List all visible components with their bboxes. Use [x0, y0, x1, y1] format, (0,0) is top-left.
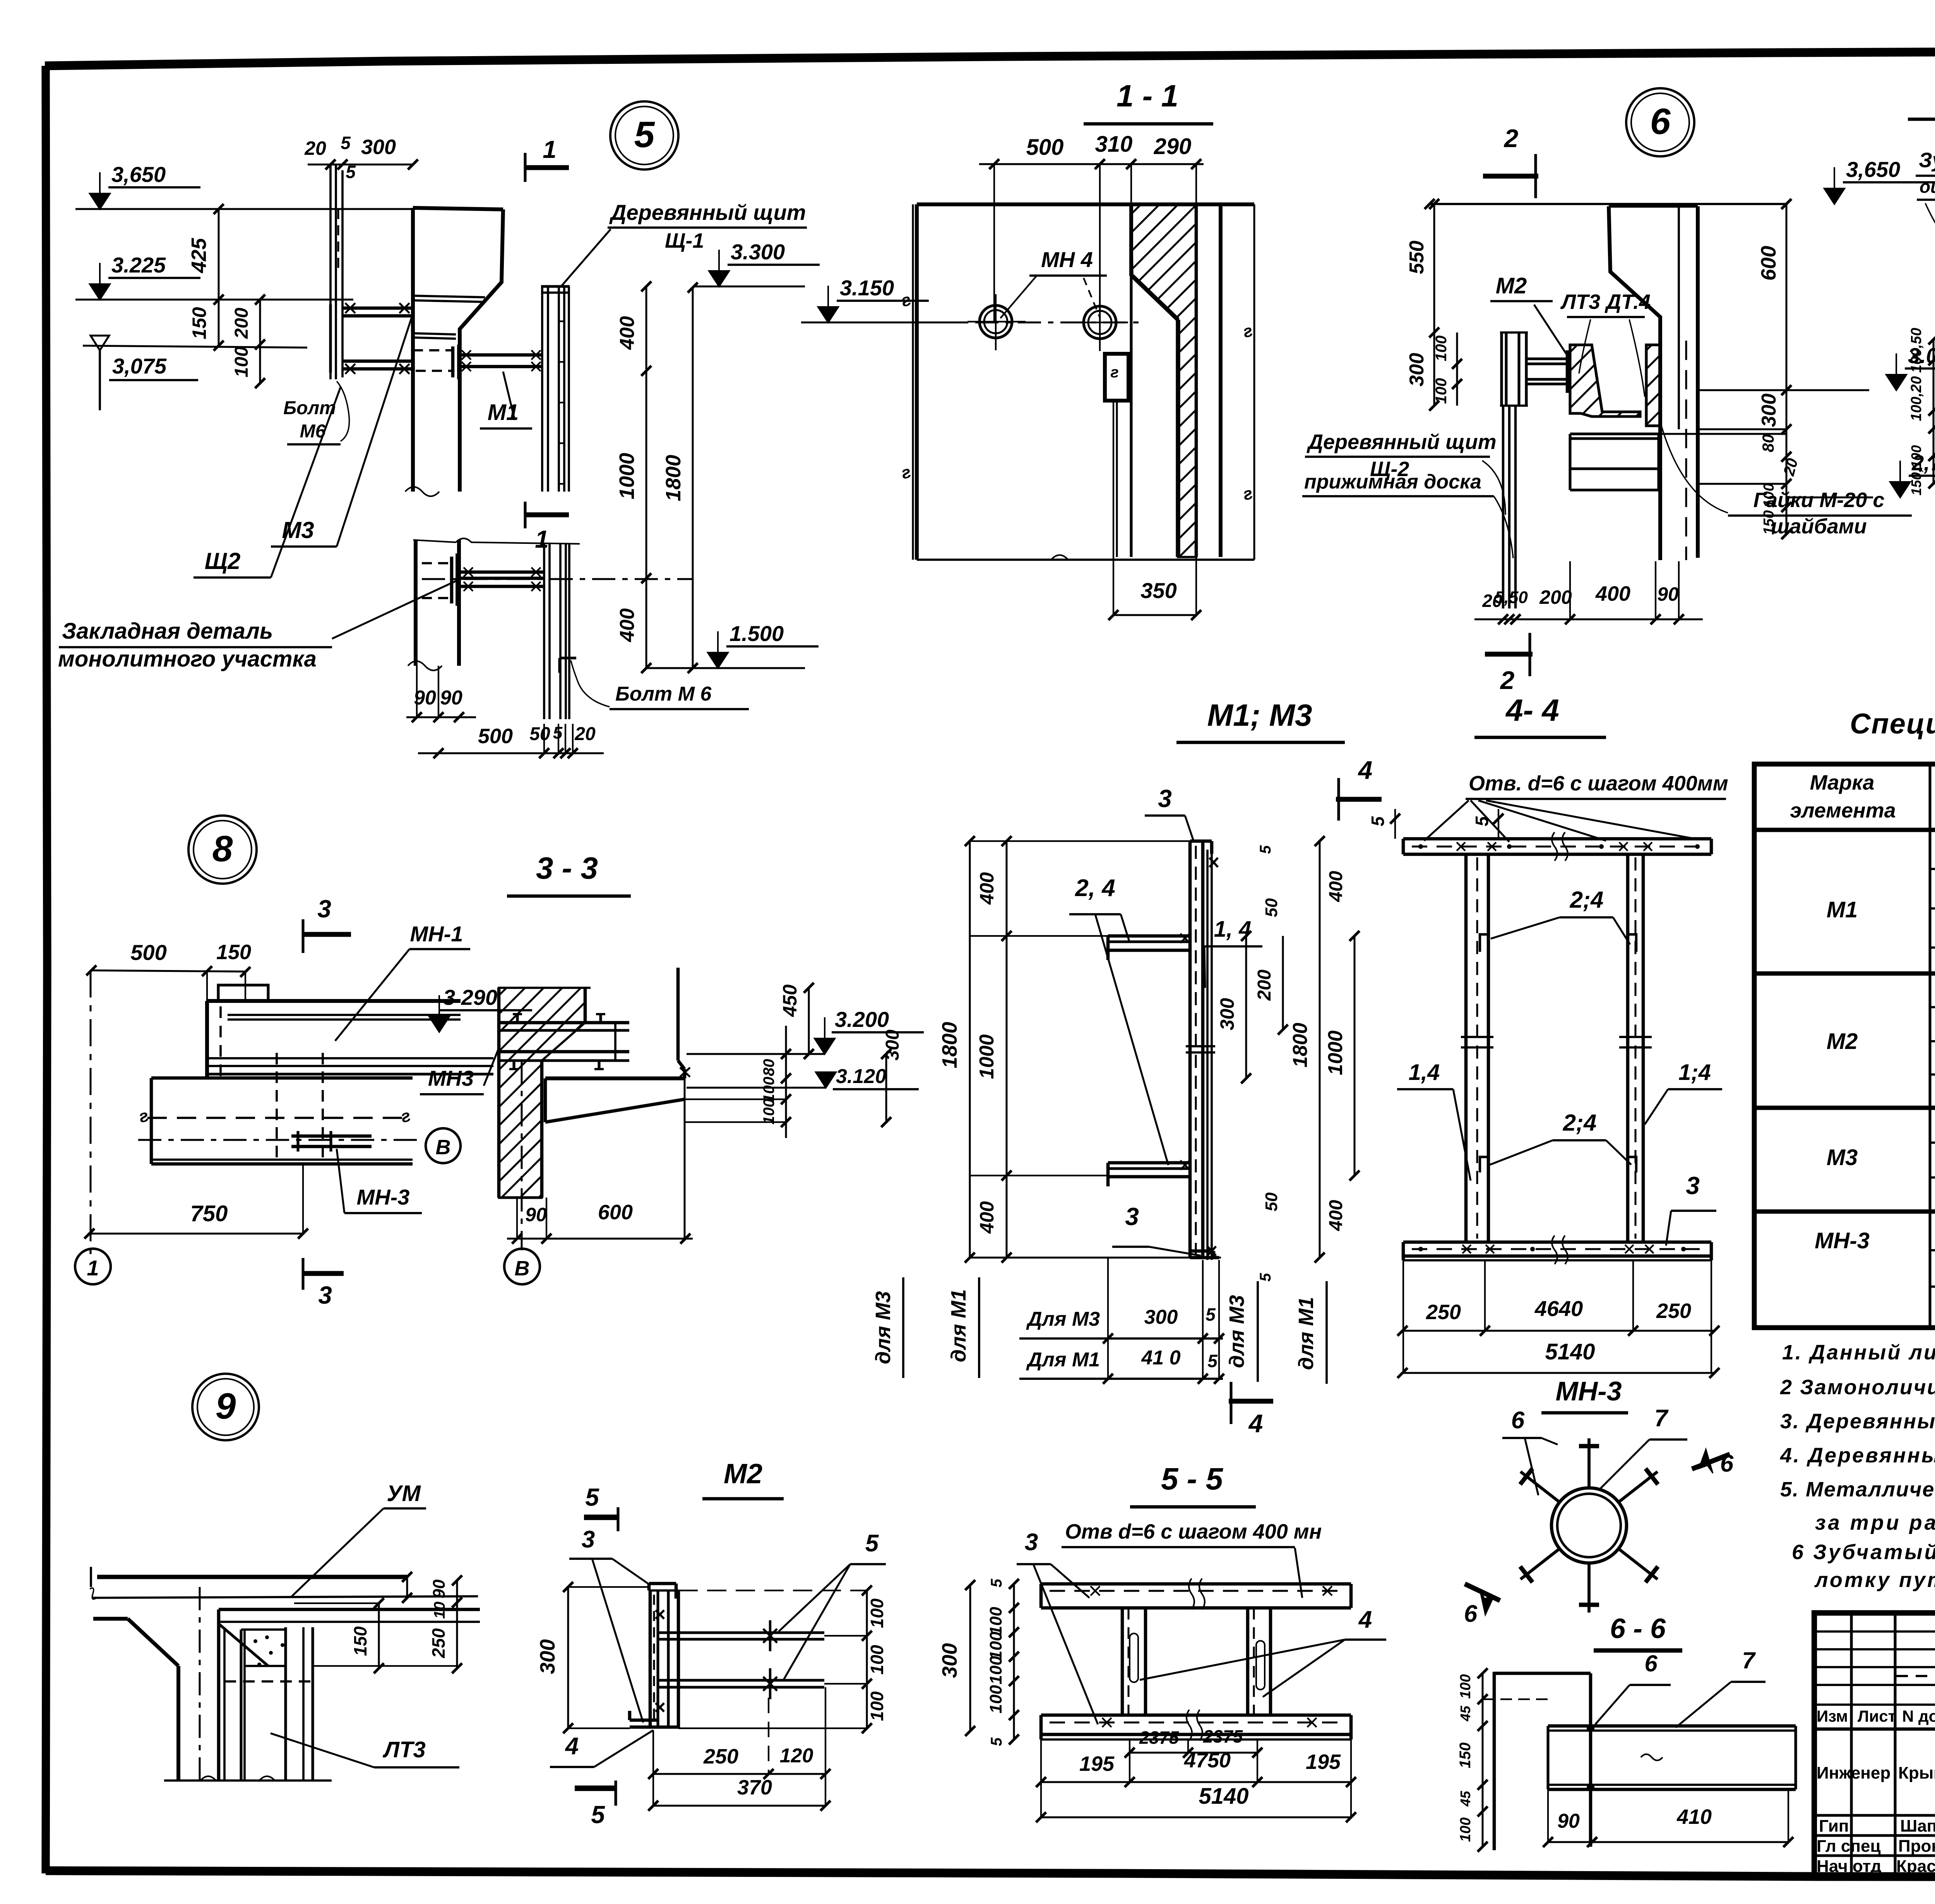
chamfer — [219, 1624, 268, 1666]
section mark 5 top — [584, 1515, 618, 1520]
svg-text:М3: М3 — [282, 517, 314, 543]
MN-3 bolt in plan — [276, 1053, 278, 1161]
svg-text:400: 400 — [976, 872, 998, 905]
svg-text:500: 500 — [1026, 135, 1064, 160]
left dim chains M1;M3 — [969, 841, 971, 1258]
dashed tie — [224, 1680, 312, 1683]
svg-text:100: 100 — [867, 1598, 887, 1628]
weld x marks bracket — [345, 303, 355, 313]
break marks on plates — [1552, 832, 1568, 861]
bracket M3 plates — [342, 307, 413, 310]
tank wall of node 6 — [1609, 206, 1660, 560]
svg-text:500: 500 — [478, 725, 513, 748]
svg-text:для М1: для М1 — [1295, 1297, 1318, 1370]
svg-text:М2: М2 — [1827, 1029, 1858, 1054]
left rotated dim chain 2-2 — [1933, 339, 1935, 483]
plan: panel top edge — [207, 999, 461, 1003]
right chains M1;M3 / 4-4 shared — [1245, 936, 1247, 1078]
svg-text:300: 300 — [1758, 394, 1780, 427]
svg-text:3,650: 3,650 — [111, 162, 166, 187]
bottom dims 90 410 — [1548, 1841, 1788, 1843]
svg-text:41 0: 41 0 — [1141, 1347, 1180, 1369]
svg-text:М6: М6 — [300, 421, 326, 442]
svg-text:150: 150 — [1457, 1743, 1474, 1769]
hatched wall band 1-1 — [1131, 204, 1196, 557]
svg-text:Марка: Марка — [1810, 771, 1875, 794]
svg-text:120: 120 — [780, 1745, 813, 1767]
svg-text:3.120: 3.120 — [836, 1065, 886, 1088]
shield board line — [1206, 850, 1209, 1260]
section mark 2 bottom node6 — [1485, 652, 1533, 657]
outer wall line — [1219, 204, 1223, 557]
svg-text:5140: 5140 — [1199, 1784, 1248, 1809]
bottom angle arm — [1108, 1161, 1190, 1165]
svg-text:МН3: МН3 — [428, 1066, 474, 1090]
section mark 5 bottom — [575, 1786, 616, 1791]
svg-text:3. Деревянные щиты крепить к м: 3. Деревянные щиты крепить к металлическ… — [1780, 1410, 1935, 1433]
svg-text:2: 2 — [1503, 124, 1519, 153]
node circle 9 — [192, 1374, 259, 1440]
svg-text:5: 5 — [585, 1483, 599, 1511]
bottom dims 4-4 — [1402, 1330, 1714, 1332]
svg-text:Болт: Болт — [283, 398, 336, 418]
rotated dims 80 100 100 (3-3) — [785, 1026, 787, 1138]
corbel slab lines — [219, 1608, 480, 1611]
svg-text:5: 5 — [988, 1578, 1005, 1587]
svg-text:2 Замоноличивание торцов лотка: 2 Замоноличивание торцов лотка выполнять… — [1780, 1376, 1935, 1399]
wall joint lines — [413, 296, 485, 297]
svg-text:8: 8 — [212, 828, 233, 869]
svg-text:200: 200 — [1539, 586, 1572, 608]
sheet frame top border — [45, 49, 1935, 66]
svg-text:3,650: 3,650 — [1846, 157, 1900, 182]
elevation 3.050 — [1886, 375, 1906, 390]
svg-text:6 Зубчатый водослив и приж: 6 Зубчатый водослив и прижимная доска кр… — [1792, 1541, 1935, 1564]
svg-text:5: 5 — [988, 1737, 1005, 1746]
svg-text:500: 500 — [130, 940, 166, 965]
left edge 1-1 — [915, 204, 919, 560]
concrete dots — [253, 1639, 257, 1643]
svg-text:М2: М2 — [724, 1458, 762, 1489]
svg-text:100: 100 — [867, 1691, 887, 1721]
svg-text:3: 3 — [582, 1526, 595, 1553]
slab top edge — [97, 1575, 407, 1579]
svg-text:5: 5 — [1472, 816, 1492, 826]
sheet frame left border — [46, 66, 47, 1873]
svg-text:для М3: для М3 — [872, 1291, 895, 1364]
top level line & 3,650 — [1824, 189, 1844, 204]
right rotated dims uzel 9 — [406, 1577, 408, 1598]
corner angle and bolt at shield bottom — [560, 656, 576, 659]
weld x on bottom plate — [1462, 1245, 1471, 1253]
svg-text:5,50: 5,50 — [1495, 588, 1528, 607]
header bottom line — [1754, 828, 1935, 832]
left dims 5-5: 300 + 100s — [969, 1585, 971, 1731]
svg-text:45: 45 — [1457, 1705, 1473, 1722]
svg-text:Деревянный щит: Деревянный щит — [1307, 430, 1497, 454]
svg-text:прижимная доска: прижимная доска — [1304, 471, 1481, 493]
svg-text:ЛТ3: ЛТ3 — [382, 1737, 426, 1762]
spec table outer — [1754, 764, 1935, 1328]
svg-text:Зубчатый водослив из: Зубчатый водослив из — [1919, 149, 1935, 172]
left rotated dims 6-6 — [1482, 1673, 1484, 1847]
svg-text:6: 6 — [1644, 1650, 1658, 1676]
hatched concrete wall 3-3 — [499, 988, 585, 1198]
bracket bolts — [516, 1014, 519, 1023]
M1 anchor plate — [451, 346, 455, 377]
svg-text:100: 100 — [867, 1645, 887, 1674]
bottom plate 5-5 — [1041, 1714, 1351, 1717]
top angle arm — [1108, 934, 1190, 938]
svg-text:4: 4 — [1358, 1606, 1372, 1633]
elevation 3.120 (3-3) — [816, 1072, 836, 1088]
left chain 300 / 100 100 — [1433, 332, 1435, 406]
svg-text:370: 370 — [737, 1776, 772, 1799]
monolithic wall with chute — [411, 208, 415, 492]
svg-text:Для М3: Для М3 — [1026, 1308, 1100, 1330]
svg-text:3 290: 3 290 — [443, 985, 497, 1009]
weld marks on arms — [1180, 934, 1190, 943]
5-5 top plate — [1041, 1582, 1351, 1586]
horizontal extension lines M1;M3 — [970, 840, 1190, 842]
plan: slab band — [151, 1076, 413, 1080]
wooden shield Shch-1 boards — [541, 286, 543, 492]
svg-text:400: 400 — [1326, 871, 1346, 902]
elevation 1.500 — [708, 653, 728, 668]
shield edge above wall — [585, 987, 591, 989]
node circle 6 — [1626, 88, 1694, 156]
svg-text:400: 400 — [976, 1201, 998, 1234]
svg-text:Болт М 6: Болт М 6 — [615, 683, 712, 705]
revision grid columns — [1850, 1613, 1853, 1876]
svg-text:3: 3 — [317, 895, 331, 923]
svg-text:Гайки М-20 с: Гайки М-20 с — [1753, 488, 1885, 512]
left dim 300 — [567, 1587, 569, 1728]
svg-text:300: 300 — [1406, 353, 1428, 387]
svg-text:5140: 5140 — [1545, 1339, 1595, 1364]
right vertical dims 400/1000/400 — [646, 286, 647, 668]
posts 5-5 — [1121, 1608, 1124, 1715]
base slabs — [1570, 432, 1659, 435]
svg-text:80: 80 — [760, 1059, 777, 1076]
closure plate — [1105, 354, 1128, 401]
circled B (plan) — [426, 1128, 461, 1163]
svg-text:100: 100 — [1433, 378, 1450, 404]
svg-text:оцинкованной стали δ=0,6 мм: оцинкованной стали δ=0,6 мм — [1920, 177, 1935, 197]
svg-text:425: 425 — [187, 238, 211, 273]
svg-text:1000: 1000 — [615, 453, 639, 499]
right dims 100x3 — [866, 1590, 868, 1728]
svg-text:300: 300 — [361, 135, 396, 159]
svg-text:50: 50 — [1262, 898, 1281, 917]
svg-text:4640: 4640 — [1534, 1296, 1583, 1321]
M1 flange arm to shield — [459, 353, 542, 357]
corner clips on posts — [1480, 934, 1488, 952]
trough wall right — [676, 968, 680, 1061]
svg-text:1000: 1000 — [1324, 1030, 1347, 1075]
svg-text:1.500: 1.500 — [729, 621, 784, 646]
svg-text:5. Металлические марки покрас: 5. Металлические марки покрасить эмалью … — [1780, 1478, 1935, 1501]
plan: top plate — [218, 985, 268, 1001]
section mark 6 lower left — [1465, 1584, 1500, 1601]
dash-dot axis of beam — [422, 578, 693, 580]
svg-text:750: 750 — [190, 1201, 228, 1226]
svg-text:6: 6 — [1720, 1450, 1734, 1477]
svg-text:80: 80 — [1759, 434, 1777, 452]
svg-text:Закладная деталь: Закладная деталь — [62, 619, 273, 644]
svg-text:4- 4: 4- 4 — [1505, 693, 1559, 727]
section mark 3 (top) — [303, 932, 351, 937]
channel LT3 verticals — [240, 1630, 242, 1781]
svg-text:Изм: Изм — [1817, 1707, 1848, 1725]
svg-text:3.150: 3.150 — [840, 276, 894, 300]
svg-text:М2: М2 — [1496, 273, 1527, 298]
svg-text:5 - 5: 5 - 5 — [1161, 1462, 1224, 1496]
weld marks post — [656, 1610, 664, 1619]
svg-text:Нач отд: Нач отд — [1817, 1857, 1882, 1876]
svg-text:монолитного участка: монолитного участка — [58, 646, 317, 672]
svg-text:4: 4 — [1358, 756, 1373, 784]
svg-text:3.300: 3.300 — [731, 240, 785, 264]
embedded beam M1 lower — [459, 571, 544, 574]
svg-text:100,20: 100,20 — [1908, 376, 1925, 421]
svg-text:5: 5 — [634, 114, 655, 155]
svg-text:350: 350 — [1140, 578, 1176, 603]
slab bottom and slope — [545, 1076, 685, 1080]
section mark 1 (middle) — [525, 512, 569, 518]
svg-text:г: г — [1110, 364, 1118, 381]
svg-text:250: 250 — [428, 1628, 449, 1658]
elevation 2.750 — [1890, 482, 1910, 497]
plan: panel left edge — [205, 1001, 209, 1078]
svg-text:290: 290 — [1154, 134, 1192, 159]
svg-text:400: 400 — [616, 316, 639, 350]
slots in posts — [1130, 1633, 1138, 1682]
splice tick mid post — [1186, 1045, 1215, 1047]
svg-text:20: 20 — [304, 137, 326, 159]
svg-text:3.225: 3.225 — [111, 253, 166, 277]
vertical dim chain x=672 (200/100) — [259, 300, 261, 383]
svg-text:100: 100 — [1457, 1817, 1474, 1842]
svg-text:400: 400 — [616, 608, 639, 643]
svg-text:МН 4: МН 4 — [1041, 247, 1093, 272]
svg-text:Отв. d=6 с шагом 400мм: Отв. d=6 с шагом 400мм — [1469, 772, 1728, 795]
svg-text:3 - 3: 3 - 3 — [536, 851, 598, 885]
bottom dims 5-5 — [1130, 1752, 1257, 1754]
channel LT3 cross-section hatched — [1570, 345, 1640, 416]
svg-text:МН-3: МН-3 — [357, 1185, 410, 1209]
svg-text:100: 100 — [760, 1099, 777, 1125]
svg-text:300: 300 — [1216, 998, 1238, 1030]
bottom dims 250 120 370 — [653, 1773, 825, 1775]
revision grid rows — [1814, 1630, 1935, 1633]
dash in revision row — [1896, 1675, 1935, 1677]
svg-text:1800: 1800 — [662, 455, 685, 501]
svg-text:МН-3: МН-3 — [1555, 1376, 1622, 1406]
rods pos 5 — [658, 1631, 824, 1634]
svg-text:195: 195 — [1079, 1752, 1115, 1775]
svg-text:600: 600 — [1757, 246, 1780, 281]
svg-text:Деревянный щит: Деревянный щит — [609, 200, 806, 225]
elevation 3.150 — [818, 307, 838, 322]
svg-text:1000: 1000 — [976, 1034, 998, 1079]
svg-text:2375: 2375 — [1203, 1726, 1243, 1746]
svg-text:310: 310 — [1095, 132, 1133, 157]
svg-text:5: 5 — [591, 1801, 605, 1829]
svg-text:20: 20 — [574, 724, 596, 744]
horizontal ground lines node 6 — [1699, 428, 1786, 430]
svg-text:Пронин: Пронин — [1898, 1837, 1935, 1856]
svg-text:1800: 1800 — [938, 1022, 961, 1068]
section mark 4 (bottom) — [1229, 1399, 1273, 1404]
svg-text:5: 5 — [1207, 1351, 1218, 1371]
svg-text:9: 9 — [216, 1386, 236, 1427]
section mark 3 (bottom) — [303, 1271, 344, 1276]
svg-text:600: 600 — [598, 1201, 633, 1224]
pipe body 6-6 — [1548, 1724, 1796, 1728]
break marks top plate 5-5 — [1189, 1578, 1205, 1609]
rod through pipe 6-6 — [1589, 1673, 1593, 1847]
anchor rods to channel — [1526, 357, 1570, 360]
svg-text:за три раза: за три раза — [1815, 1511, 1935, 1534]
dashed bolts lower — [422, 562, 452, 564]
center axis of MN-3 bolt — [138, 1139, 423, 1141]
axis through B — [521, 1061, 523, 1250]
svg-text:10: 10 — [431, 1602, 448, 1619]
vertical dim chain x=565 (425/150) — [218, 209, 220, 346]
svg-text:3: 3 — [1158, 785, 1172, 812]
top slab line 1-1 — [917, 202, 1254, 206]
sheet frame bottom border — [46, 1871, 1935, 1877]
svg-text:МН-1: МН-1 — [410, 922, 463, 946]
elevation 3.200 (3-3) — [815, 1039, 835, 1054]
post splices — [1461, 1036, 1493, 1038]
svg-text:3,075: 3,075 — [112, 354, 167, 378]
svg-text:Гл спец: Гл спец — [1817, 1837, 1881, 1856]
svg-text:3: 3 — [1025, 1529, 1038, 1556]
weld x 5-5 — [1091, 1586, 1100, 1596]
svg-text:200: 200 — [1254, 970, 1275, 1001]
svg-text:150: 150 — [216, 941, 251, 964]
dim 500 50,5 20 — [418, 752, 604, 754]
svg-text:элемента: элемента — [1790, 799, 1896, 822]
svg-text:3: 3 — [1125, 1203, 1139, 1230]
svg-text:100,50: 100,50 — [1908, 328, 1925, 373]
svg-text:1;4: 1;4 — [1678, 1060, 1711, 1085]
svg-text:150: 150 — [188, 307, 210, 339]
weld x — [680, 1068, 690, 1077]
circled B bottom (3-3) — [504, 1249, 540, 1284]
circled 1 bottom — [75, 1249, 111, 1284]
spec table column lines — [1928, 764, 1931, 1328]
svg-text:5: 5 — [1368, 816, 1388, 826]
right dim chain of node 6 — [1786, 204, 1788, 534]
svg-text:1 - 1: 1 - 1 — [1116, 79, 1178, 113]
dashed bolt lines through wall — [413, 349, 452, 351]
svg-text:50: 50 — [1262, 1192, 1281, 1211]
svg-text:300: 300 — [536, 1639, 559, 1674]
axis line vertical (left) — [90, 970, 92, 1254]
svg-text:5: 5 — [1206, 1304, 1216, 1325]
svg-text:7: 7 — [1742, 1647, 1756, 1673]
bottom foot angle — [630, 1719, 658, 1722]
svg-text:М3: М3 — [1827, 1145, 1858, 1170]
svg-text:7: 7 — [1654, 1405, 1669, 1432]
svg-text:100: 100 — [986, 1607, 1005, 1635]
svg-text:200: 200 — [231, 308, 252, 339]
svg-text:Для М1: Для М1 — [1026, 1349, 1100, 1371]
dashed line with breaks — [147, 1117, 408, 1119]
svg-text:МН-3: МН-3 — [1815, 1228, 1870, 1253]
svg-text:5: 5 — [341, 133, 351, 153]
svg-text:250: 250 — [703, 1745, 738, 1768]
svg-text:150: 150 — [350, 1626, 370, 1656]
svg-text:250: 250 — [1426, 1301, 1461, 1324]
svg-text:3.200: 3.200 — [835, 1007, 889, 1032]
svg-text:100: 100 — [986, 1632, 1005, 1660]
svg-text:100: 100 — [986, 1685, 1005, 1714]
svg-text:Красавин: Красавин — [1896, 1857, 1935, 1876]
long shield boards below — [1502, 406, 1504, 608]
svg-text:1800: 1800 — [1289, 1023, 1312, 1068]
svg-text:2: 2 — [1500, 666, 1515, 694]
section mark 6 upper right — [1692, 1454, 1730, 1469]
svg-text:6: 6 — [1511, 1407, 1525, 1434]
svg-text:3: 3 — [1686, 1172, 1700, 1200]
top cap angle — [1190, 840, 1212, 843]
MN-3 ring — [1551, 1488, 1627, 1563]
svg-text:100: 100 — [231, 346, 252, 377]
left height dim with breaks — [912, 204, 914, 560]
title block outer — [1814, 1613, 1935, 1876]
svg-text:550: 550 — [1406, 241, 1428, 274]
svg-text:5: 5 — [1257, 1273, 1274, 1282]
lower wall piece with breaks — [414, 540, 418, 666]
4-4 bottom flange plate — [1403, 1241, 1711, 1244]
svg-text:150,100: 150,100 — [1908, 445, 1924, 495]
posts 4-4 — [1464, 854, 1468, 1242]
svg-text:400: 400 — [1326, 1200, 1346, 1231]
svg-text:лотку путем затяжки гаек н: лотку путем затяжки гаек на марке М-2 — [1814, 1568, 1935, 1592]
svg-text:В: В — [515, 1257, 530, 1280]
svg-text:для М3: для М3 — [1225, 1295, 1248, 1368]
svg-text:2, 4: 2, 4 — [1075, 875, 1115, 901]
svg-text:М1; М3: М1; М3 — [1207, 698, 1312, 732]
M2 bracket strips — [1500, 332, 1503, 406]
svg-text:300: 300 — [938, 1643, 961, 1678]
wall right edge — [217, 1624, 221, 1781]
svg-text:1: 1 — [87, 1256, 99, 1280]
svg-text:90: 90 — [430, 1579, 449, 1598]
section mark 4 (top) — [1336, 797, 1382, 802]
svg-text:450: 450 — [779, 984, 801, 1017]
elevation 3.650 — [90, 194, 110, 209]
elevation 3.290 — [429, 1016, 449, 1032]
svg-text:Шапиро: Шапиро — [1900, 1817, 1935, 1835]
header row lines — [1814, 1727, 1935, 1731]
svg-text:Лист: Лист — [1858, 1707, 1896, 1725]
bottom line of 1-1 — [917, 559, 1254, 561]
right height dim — [1253, 204, 1255, 560]
svg-text:Отв d=6 с шагом 400 мн: Отв d=6 с шагом 400 мн — [1065, 1520, 1322, 1543]
svg-text:195: 195 — [1306, 1750, 1341, 1774]
weld x top plate — [1457, 842, 1465, 851]
svg-text:Спецификация металла на одну м: Спецификация металла на одну марку. — [1850, 708, 1935, 740]
M2 vertical post — [649, 1590, 652, 1728]
svg-text:100: 100 — [986, 1656, 1005, 1685]
svg-text:300: 300 — [1144, 1306, 1178, 1328]
rod bolts X + bars — [763, 1629, 777, 1643]
